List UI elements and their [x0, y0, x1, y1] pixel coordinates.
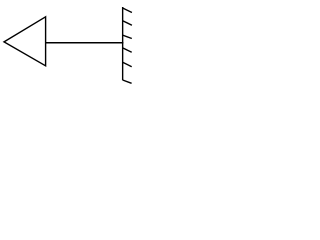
hatch tick 5 [123, 62, 132, 66]
hatch tick 6 [123, 80, 132, 83]
wall line (vertical) [122, 7, 124, 80]
hatch tick 1 [123, 8, 132, 13]
hatch tick 4 [123, 48, 132, 52]
triangle (left-pointing open arrowhead) [4, 17, 46, 66]
wire (horizontal line from triangle to wall) [46, 42, 124, 44]
hatch tick 3 [123, 35, 132, 38]
hatch tick 2 [123, 21, 132, 26]
